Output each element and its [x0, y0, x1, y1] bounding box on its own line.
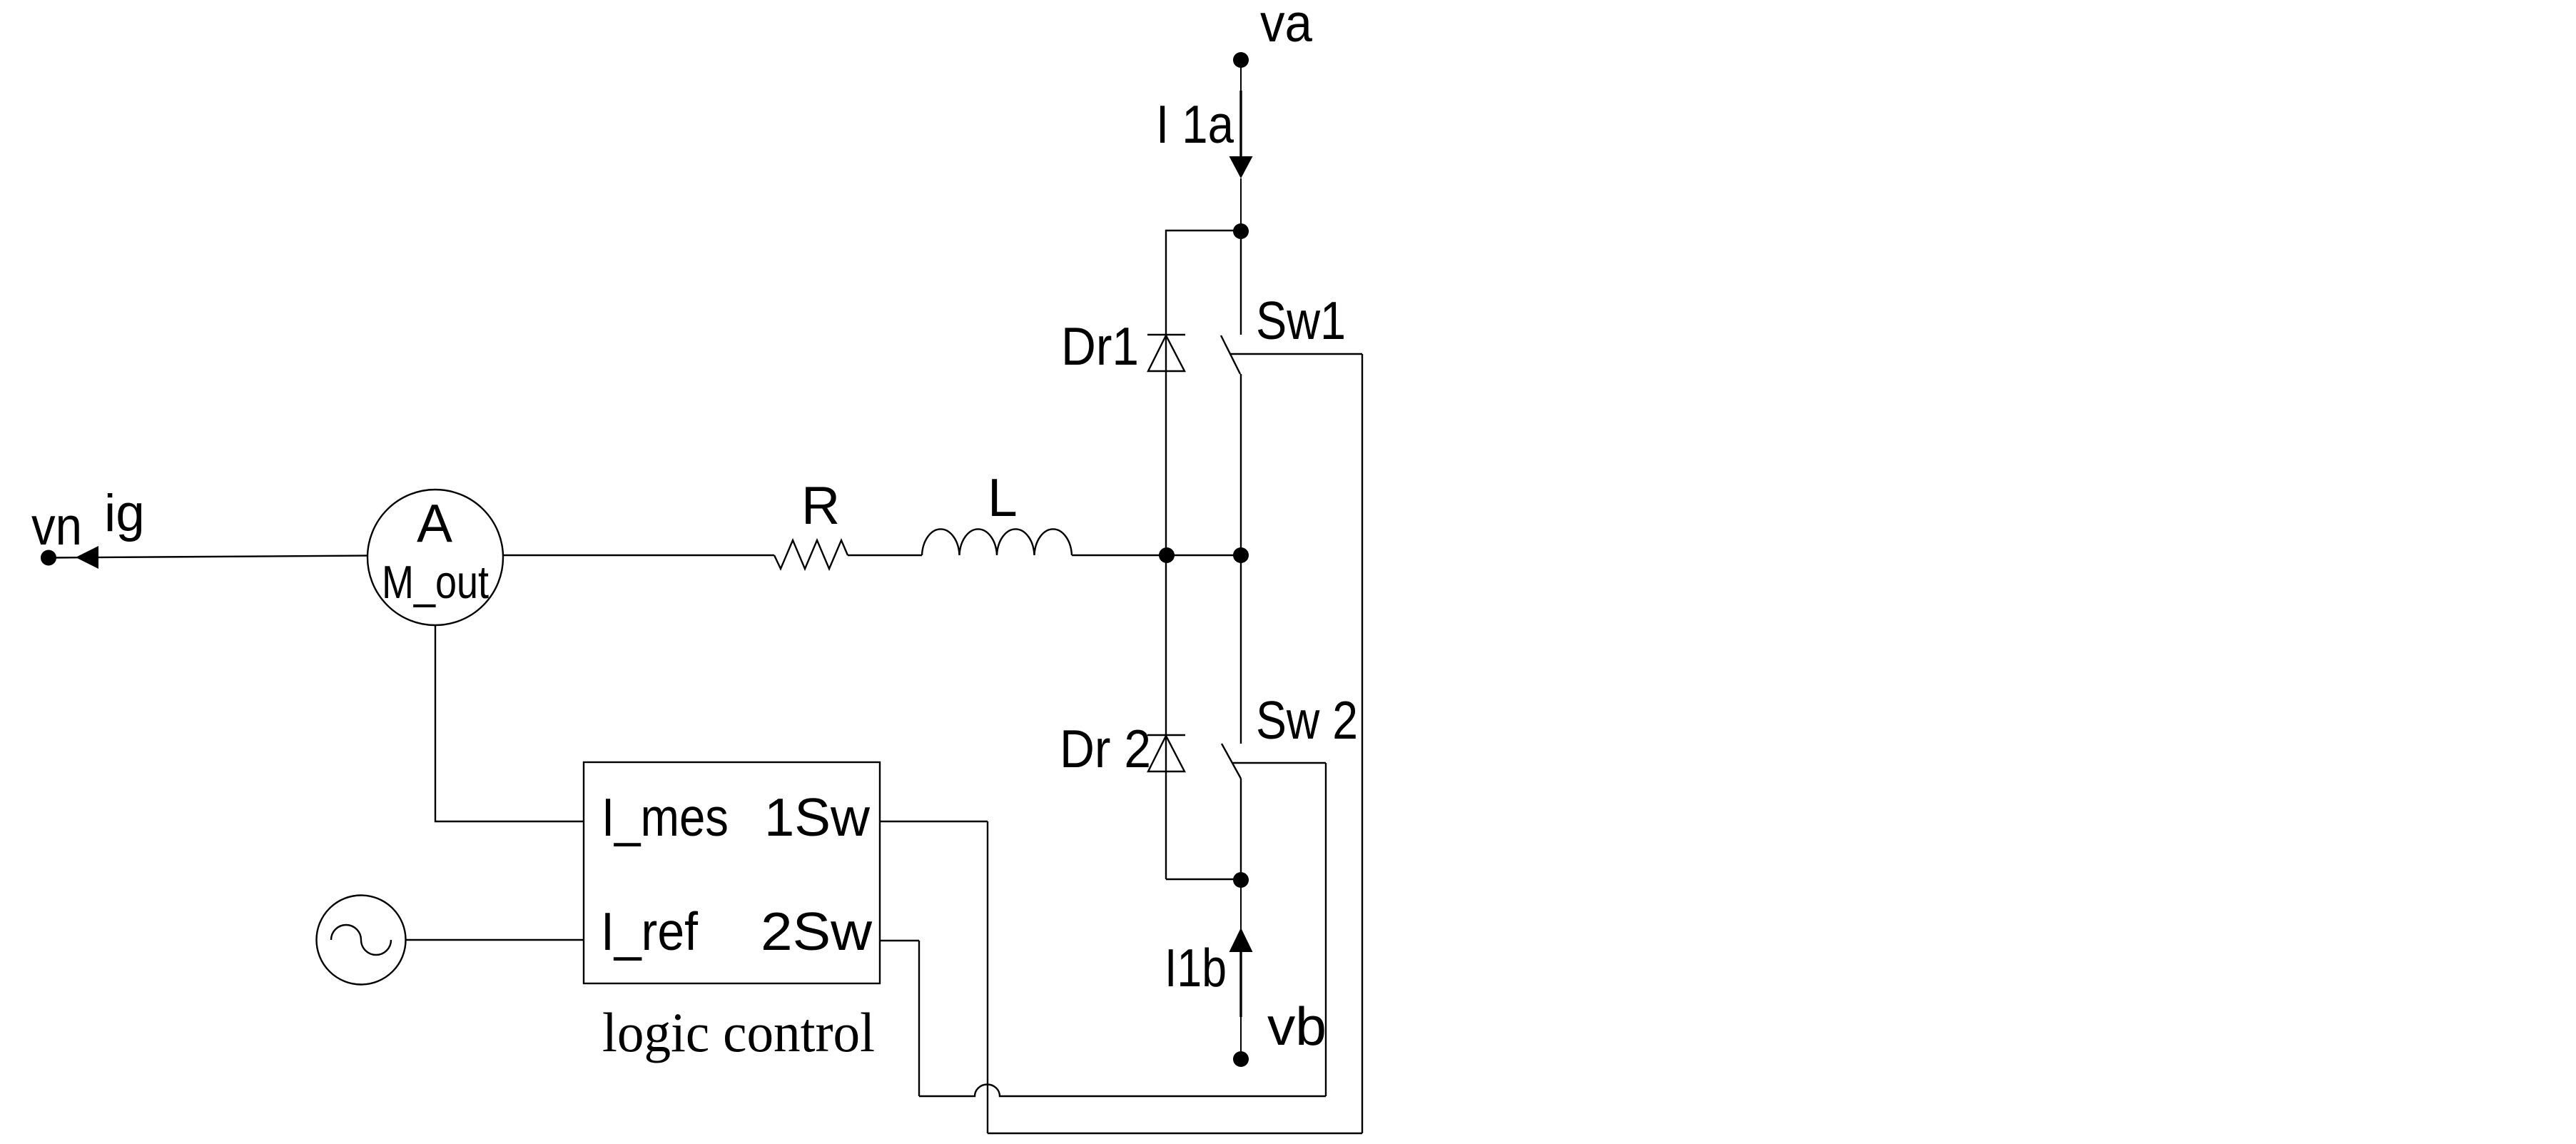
svg-text:M_out: M_out	[382, 556, 489, 608]
node main wire Dr junction	[1159, 547, 1175, 563]
svg-text:logic control: logic control	[602, 1001, 875, 1063]
wire ammeter bottom to I_mes port	[435, 625, 584, 821]
node va	[1233, 52, 1249, 68]
svg-text:va: va	[1260, 0, 1312, 53]
wire vn to ammeter	[49, 556, 367, 558]
current arrow ig head	[76, 546, 98, 569]
svg-text:vb: vb	[1267, 996, 1327, 1056]
current arrow I1b shaft	[1239, 952, 1242, 1017]
node junction top	[1233, 223, 1249, 239]
node junction2	[1233, 872, 1249, 888]
wire 1Sw drop up	[987, 821, 988, 1133]
wire bottom run to 1Sw drop	[988, 1133, 1362, 1134]
svg-text:L: L	[988, 467, 1018, 527]
switch Sw1	[1221, 231, 1241, 555]
node vb	[1233, 1051, 1249, 1067]
svg-text:R: R	[801, 475, 840, 535]
svg-text:2Sw: 2Sw	[761, 901, 873, 961]
logic control box	[584, 762, 880, 983]
wire to vb node	[1240, 1017, 1242, 1051]
wire Sw2 blade to right rail	[1232, 762, 1326, 764]
resistor R	[774, 540, 848, 569]
svg-text:1Sw: 1Sw	[764, 787, 871, 847]
diode Dr2	[1147, 555, 1185, 879]
wire to 2Sw port	[880, 940, 919, 941]
svg-text:Sw1: Sw1	[1256, 290, 1346, 350]
node vn	[41, 550, 56, 566]
current arrow I1a shaft	[1239, 91, 1242, 156]
svg-text:I_mes: I_mes	[602, 787, 729, 847]
svg-text:I_ref: I_ref	[601, 901, 698, 961]
svg-text:Dr 2: Dr 2	[1060, 719, 1151, 779]
wire Sw2 right rail down	[1325, 763, 1327, 1096]
sine wave	[331, 925, 391, 955]
wire source to I_ref port	[406, 939, 584, 941]
wire L to switch column	[1072, 555, 1242, 556]
svg-text:vn: vn	[31, 496, 82, 556]
wire junction2 down	[1240, 880, 1242, 929]
current arrow I1b head	[1229, 928, 1253, 952]
wire va down	[1240, 66, 1242, 156]
ammeter M_out circle	[367, 490, 503, 625]
switch Sw2	[1222, 555, 1241, 880]
svg-text:I1b: I1b	[1165, 938, 1227, 998]
svg-text:A: A	[417, 493, 452, 553]
inductor L	[922, 529, 1072, 555]
wire junction to Dr1 top	[1166, 231, 1241, 335]
svg-text:I 1a: I 1a	[1156, 94, 1234, 154]
wire arrow to junction	[1240, 178, 1242, 231]
wire Sw1 right rail down	[1361, 354, 1363, 1133]
svg-text:ig: ig	[104, 485, 145, 542]
svg-text:Sw 2: Sw 2	[1256, 690, 1358, 750]
wire Dr2 to junction2	[1166, 879, 1241, 880]
diode Dr1	[1147, 335, 1185, 555]
wire ammeter to R	[503, 555, 774, 556]
node main wire Sw junction	[1233, 547, 1249, 563]
sine source circle	[317, 896, 406, 985]
wire 2Sw drop up	[918, 941, 920, 1096]
wire Sw2 bottom run with hop	[919, 1085, 1326, 1097]
wire Sw1 blade to right rail	[1229, 353, 1362, 355]
current arrow I1a head	[1229, 156, 1253, 178]
svg-text:Dr1: Dr1	[1061, 316, 1139, 376]
wire R to L	[848, 555, 922, 556]
wire to 1Sw port	[880, 821, 988, 822]
